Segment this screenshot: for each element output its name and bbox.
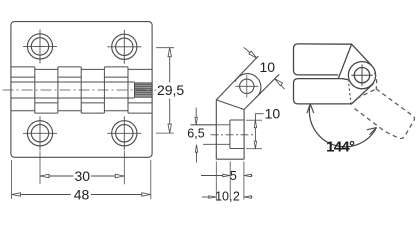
arc arrowhead right (open) [367, 128, 377, 135]
svg-text:29,5: 29,5 [157, 82, 184, 98]
svg-text:10,: 10, [215, 190, 232, 202]
svg-text:10: 10 [260, 59, 276, 75]
svg-text:30: 30 [75, 168, 91, 184]
moving leaf closed position (lower rounded rect) [294, 79, 352, 104]
open leaf roll (dashed) [375, 73, 377, 89]
pin circle with crosshair (end view) [351, 65, 372, 86]
dim 29.5 extension lines [156, 48, 174, 133]
svg-text:48: 48 [74, 186, 90, 202]
mounting hole top-right [107, 30, 141, 64]
bottom extension lines (middle view) [216, 162, 244, 200]
dim 5 line with arrows [201, 175, 252, 177]
dim 48 line with arrows [12, 194, 151, 196]
dim 48 extension lines [12, 160, 151, 199]
fixed leaf closed position (upper rounded rect with bend apex) [294, 44, 372, 79]
knurled pin end (hatched) [135, 83, 153, 97]
hole centerline (dash-dot, side view) [211, 134, 254, 136]
dim 29.5 line with arrows [169, 48, 171, 133]
svg-text:5: 5 [230, 169, 237, 183]
svg-text:6,5: 6,5 [187, 127, 204, 141]
fold edge between bent part and wall (side view) [216, 100, 244, 110]
knuckle boundary verticals [35, 67, 128, 113]
dim 6.5 arrows [195, 108, 197, 163]
mounting hole bottom-left [23, 116, 57, 150]
barrel centerline (dash-dot) [3, 89, 157, 91]
hidden bend line (dotted) [348, 81, 351, 105]
knuckle roll outer arc (side view) [235, 74, 261, 98]
dim 10,2 line with arrows [202, 196, 252, 198]
svg-text:2: 2 [233, 190, 240, 202]
wall hole lines (left wall) [191, 125, 231, 145]
arc arrowhead left (open) [307, 104, 314, 113]
mounting hole bottom-right [107, 116, 141, 150]
open leaf phantom outline (dashed, 144 deg) [354, 89, 415, 139]
mounting hole top-left [23, 29, 57, 63]
open leaf bent face (dashed) [357, 89, 377, 99]
dim 30 extension lines [40, 151, 124, 184]
closed leaf bend tangent line [351, 84, 374, 105]
dim 6.5 extension line top [191, 124, 217, 126]
dim 10 right line with arrows [255, 114, 263, 149]
svg-text:10: 10 [265, 106, 281, 122]
angle arc 144 [309, 104, 376, 147]
leaf side profile - left wall edge [216, 56, 279, 159]
svg-text:144°: 144° [326, 138, 355, 155]
dim 10 top arrows (angled) [244, 47, 285, 89]
inner wall rectangle [230, 120, 244, 149]
dim 30 line with arrows [40, 175, 124, 177]
pin circle (side view) [235, 75, 258, 98]
dim 10 right extension lines [246, 120, 262, 149]
hinge leaf plate outline (front view) [11, 22, 152, 158]
hinge pin outline (front view) [11, 82, 135, 98]
knuckle outer circle (end view) [348, 62, 375, 89]
hinge knuckle segments (alternating) [11, 67, 152, 113]
